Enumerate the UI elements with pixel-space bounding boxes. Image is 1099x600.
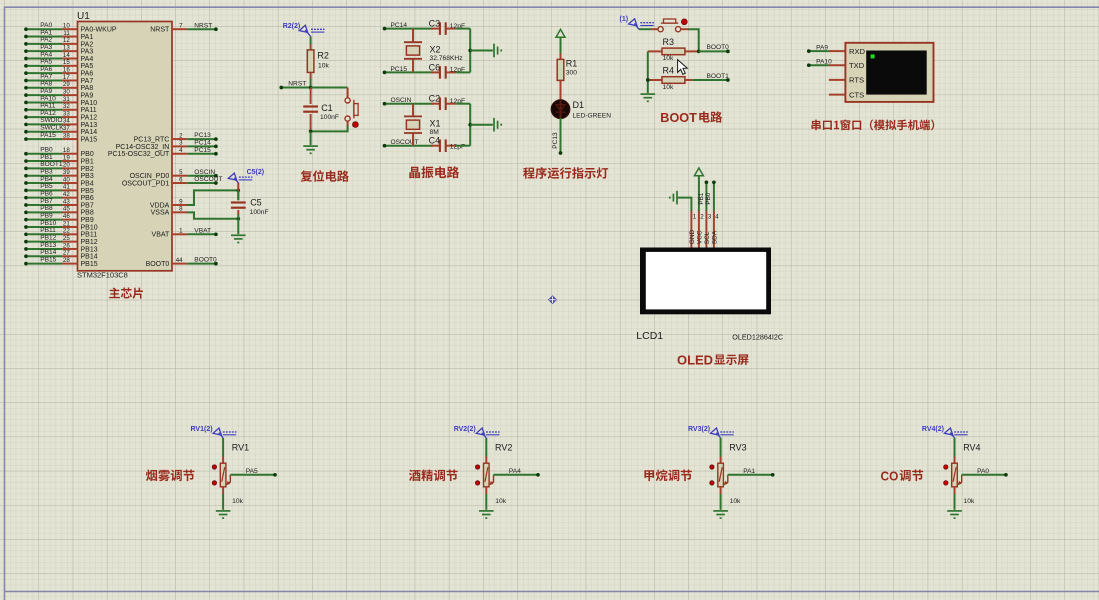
pin VBAT (1) wire	[152, 227, 218, 238]
svg-text:C3: C3	[429, 19, 441, 29]
svg-text:PB5: PB5	[40, 183, 53, 190]
svg-text:PA8: PA8	[40, 81, 52, 88]
pin PB1 (19) net PB1 wire	[24, 154, 94, 166]
wire net PB0 to SDA pin 4	[705, 180, 716, 211]
wire net PB1 to SCL pin 3	[698, 180, 708, 211]
svg-text:PA9: PA9	[81, 93, 94, 100]
svg-text:PB12: PB12	[40, 234, 56, 241]
selector dots RV4	[944, 465, 948, 485]
svg-text:31: 31	[63, 96, 70, 103]
power terminal (1)	[620, 16, 654, 29]
selector dots RV3	[710, 465, 714, 485]
ground reset circuit	[303, 146, 318, 153]
pin PC14-OSC32_IN (3) wire	[116, 140, 218, 151]
svg-text:300: 300	[566, 69, 577, 76]
svg-text:C4: C4	[429, 136, 441, 146]
svg-text:PB7: PB7	[81, 202, 94, 209]
pin OSCOUT_PD1 (6) wire	[122, 176, 223, 187]
wire C2 to right rail	[456, 103, 470, 105]
svg-text:39: 39	[63, 169, 70, 176]
wire net BOOT1	[692, 73, 729, 82]
pin PA5 (15) net PA5 wire	[24, 59, 93, 71]
svg-text:1: 1	[179, 228, 183, 235]
svg-text:9: 9	[179, 198, 183, 205]
wire RV1 to ground	[222, 494, 224, 510]
svg-text:X1: X1	[430, 119, 441, 129]
svg-text:PB6: PB6	[81, 195, 94, 202]
net PC14 wire	[383, 22, 433, 30]
svg-text:10k: 10k	[730, 498, 741, 505]
svg-text:PB1: PB1	[81, 158, 94, 165]
svg-text:PA12: PA12	[40, 110, 56, 117]
pin OSCIN_PD0 (5) wire	[130, 169, 218, 180]
svg-text:PC14: PC14	[194, 140, 211, 147]
svg-text:RV2: RV2	[495, 443, 512, 453]
svg-text:7: 7	[179, 23, 183, 30]
pin PA9 (30) net PA9 wire	[24, 88, 93, 100]
svg-text:RV1: RV1	[232, 443, 249, 453]
svg-text:22: 22	[63, 228, 70, 235]
pin PA4 (14) net PA4 wire	[24, 51, 93, 63]
svg-text:PA15: PA15	[40, 132, 56, 139]
wire power to RV1	[222, 438, 224, 457]
pin NRST (7) wire	[150, 22, 218, 33]
wire RV2 to ground	[485, 494, 487, 510]
svg-text:PB10: PB10	[81, 224, 98, 231]
svg-text:PB3: PB3	[81, 173, 94, 180]
label 甲烷调节	[644, 470, 654, 481]
svg-text:C5(2): C5(2)	[247, 169, 265, 176]
svg-text:LED-GREEN: LED-GREEN	[573, 112, 612, 119]
svg-text:BOOT: BOOT	[660, 110, 697, 125]
svg-text:OSCIN_PD0: OSCIN_PD0	[130, 173, 170, 180]
power terminal (green arrow) LED supply	[556, 29, 565, 37]
svg-text:41: 41	[63, 184, 70, 191]
node C1 bottom junction	[309, 130, 313, 134]
node rail mid X1 group	[468, 123, 472, 127]
svg-text:PB13: PB13	[81, 246, 98, 253]
label 复位电路	[301, 170, 313, 181]
svg-text:8: 8	[179, 206, 183, 213]
wire GND pin 1	[677, 198, 691, 211]
svg-text:C1: C1	[321, 103, 333, 113]
svg-text:1: 1	[693, 214, 697, 221]
resistor R2 10k	[307, 45, 329, 79]
svg-text:10: 10	[63, 23, 70, 30]
pin PA13 (34) net SWDIO wire	[24, 117, 97, 129]
node R4/rail junction	[646, 78, 650, 82]
svg-text:17: 17	[63, 74, 70, 81]
svg-text:5: 5	[179, 169, 183, 176]
pin PA6 (16) net PA6 wire	[24, 66, 93, 78]
svg-text:OSCOUT: OSCOUT	[194, 176, 222, 183]
svg-text:PC14: PC14	[391, 22, 408, 29]
ground X1 group (sideways)	[494, 118, 501, 132]
svg-text:PA15: PA15	[81, 136, 98, 143]
svg-text:PA4: PA4	[81, 56, 94, 63]
svg-text:21: 21	[63, 220, 70, 227]
selector dots RV2	[475, 465, 479, 485]
svg-text:NRST: NRST	[150, 27, 170, 34]
wire RV4 to ground	[954, 494, 956, 510]
svg-text:PA8: PA8	[81, 85, 94, 92]
svg-text:34: 34	[63, 118, 70, 125]
pin PA1 (11) net PA1 wire	[24, 29, 93, 41]
power terminal R2(2)	[283, 23, 325, 36]
svg-text:14: 14	[63, 52, 70, 59]
pin VDDA (9) wire	[150, 198, 187, 209]
ground OLED (sideways left)	[670, 191, 677, 205]
capacitor C2 12pF	[429, 94, 465, 110]
wire power to RV3	[720, 438, 722, 457]
svg-text:PA2: PA2	[40, 37, 52, 44]
svg-text:PA1: PA1	[40, 29, 52, 36]
wire VDDA to C5 top	[187, 190, 238, 205]
svg-text:42: 42	[63, 191, 70, 198]
wire net PA1	[728, 468, 775, 477]
svg-text:PA0: PA0	[977, 468, 989, 475]
svg-text:TXD: TXD	[849, 61, 865, 70]
svg-text:29: 29	[63, 81, 70, 88]
wire net PA4	[494, 468, 540, 477]
wire R2 to NRST node	[310, 79, 312, 88]
wire R1 to D1	[560, 86, 562, 101]
svg-text:SCL: SCL	[704, 231, 711, 244]
svg-text:OSCOUT_PD1: OSCOUT_PD1	[122, 180, 170, 187]
svg-text:PB2: PB2	[81, 166, 94, 173]
pin PA0-WKUP (10) net PA0 wire	[24, 22, 117, 34]
potentiometer RV3 10k	[718, 443, 747, 506]
svg-text:RV2(2): RV2(2)	[454, 426, 476, 433]
resistor R4 10k	[648, 66, 693, 91]
svg-text:PC13: PC13	[552, 132, 559, 149]
svg-text:RXD: RXD	[849, 47, 866, 56]
svg-text:PB14: PB14	[81, 254, 98, 261]
svg-text:37: 37	[63, 125, 70, 132]
svg-text:RV4: RV4	[963, 443, 980, 453]
svg-text:18: 18	[63, 147, 70, 154]
pin BOOT0 (44) wire	[146, 257, 218, 268]
svg-text:CO: CO	[881, 469, 899, 484]
pin PB6 (42) net PB6 wire	[24, 190, 94, 202]
net OSCIN wire	[383, 97, 433, 105]
potentiometer RV4 10k	[952, 443, 981, 506]
potentiometer RV2 10k	[484, 443, 513, 506]
pin PA15 (38) net PA15 wire	[24, 132, 97, 144]
wire NRST stub left	[279, 86, 310, 90]
pin PA11 (32) net PA11 wire	[24, 103, 97, 115]
svg-text:40: 40	[63, 176, 70, 183]
svg-text:PB13: PB13	[40, 242, 56, 249]
mouse cursor	[678, 60, 688, 75]
svg-text:R2(2): R2(2)	[283, 23, 301, 30]
push button (reset)	[345, 98, 358, 128]
origin marker	[548, 295, 557, 304]
svg-text:PA5: PA5	[81, 63, 94, 70]
svg-text:32.768KHz: 32.768KHz	[430, 55, 464, 62]
svg-text:BOOT0: BOOT0	[146, 261, 170, 268]
selector dots RV1	[212, 465, 216, 485]
svg-text:PB0: PB0	[81, 151, 94, 158]
wire net PA5	[230, 468, 277, 477]
svg-text:D1: D1	[573, 100, 585, 110]
net PC15 wire	[383, 66, 433, 74]
pin PA12 (33) net PA12 wire	[24, 110, 97, 122]
svg-text:C6: C6	[429, 62, 441, 72]
wire D1 to PC13 net	[552, 118, 562, 155]
svg-text:PB8: PB8	[40, 205, 53, 212]
svg-text:PB1: PB1	[698, 192, 705, 204]
svg-text:PA10: PA10	[40, 95, 56, 102]
ground RV3	[713, 511, 728, 518]
svg-text:6: 6	[179, 176, 183, 183]
svg-text:33: 33	[63, 110, 70, 117]
wire C6 to right rail	[456, 71, 470, 73]
svg-text:STM32F103C8: STM32F103C8	[77, 271, 128, 280]
svg-text:PA2: PA2	[81, 41, 94, 48]
pin PA8 (29) net PA8 wire	[24, 81, 93, 93]
ground RV1	[216, 511, 231, 518]
svg-text:PB10: PB10	[40, 220, 56, 227]
svg-text:45: 45	[63, 206, 70, 213]
node VSSA/C5 junction	[236, 217, 240, 221]
label 串口1窗口（模拟手机端）	[811, 120, 820, 131]
wire rail to ground X2 group	[470, 50, 493, 52]
node R3/button junction	[697, 50, 701, 54]
svg-text:PA6: PA6	[81, 71, 94, 78]
OLED module LCD1 OLED12864I2C	[636, 248, 783, 342]
pin PA7 (17) net PA7 wire	[24, 73, 93, 85]
power terminal C5(2)	[228, 169, 264, 183]
wire right rail X1 group	[469, 104, 471, 146]
svg-text:PB14: PB14	[40, 249, 56, 256]
power terminal RV1(2)	[191, 426, 237, 438]
svg-text:PA4: PA4	[40, 51, 52, 58]
svg-text:U1: U1	[77, 11, 90, 22]
svg-text:13: 13	[63, 44, 70, 51]
svg-text:PC15: PC15	[194, 147, 211, 154]
power terminal RV4(2)	[922, 426, 968, 438]
svg-text:46: 46	[63, 213, 70, 220]
svg-text:10k: 10k	[663, 84, 674, 91]
wire C3 to right rail	[456, 28, 470, 30]
svg-text:PA5: PA5	[246, 468, 258, 475]
svg-text:10k: 10k	[964, 498, 975, 505]
svg-text:PB12: PB12	[81, 239, 98, 246]
svg-text:PA10: PA10	[81, 100, 98, 107]
svg-text:PB9: PB9	[81, 217, 94, 224]
push button (BOOT)	[658, 19, 687, 32]
svg-text:VBAT: VBAT	[152, 232, 170, 239]
net OSCOUT wire	[383, 139, 433, 147]
svg-text:3: 3	[708, 214, 712, 221]
svg-text:26: 26	[63, 242, 70, 249]
svg-text:32: 32	[63, 103, 70, 110]
pin PB8 (45) net PB8 wire	[24, 205, 94, 217]
capacitor C4 12pF	[429, 136, 465, 152]
capacitor C1 100nF	[303, 88, 339, 132]
svg-text:12pF: 12pF	[450, 144, 465, 151]
wire rail to ground X1 group	[470, 124, 493, 126]
pin PB13 (26) net PB13 wire	[24, 242, 98, 254]
wire power to RV2	[485, 438, 487, 457]
ground RV4	[947, 511, 962, 518]
svg-text:100nF: 100nF	[320, 114, 339, 121]
wire button to R3 node	[681, 28, 689, 30]
svg-text:PA5: PA5	[40, 59, 52, 66]
wire power to RV4	[954, 438, 956, 457]
svg-text:10k: 10k	[232, 498, 243, 505]
svg-text:R2: R2	[317, 51, 329, 61]
svg-text:20: 20	[63, 162, 70, 169]
pin PA14 (37) net SWCLK wire	[24, 125, 97, 137]
svg-text:R1: R1	[566, 58, 578, 68]
svg-text:PB11: PB11	[81, 232, 98, 239]
node NRST junction	[309, 86, 313, 90]
svg-text:PC14-OSC32_IN: PC14-OSC32_IN	[116, 144, 170, 151]
svg-text:11: 11	[63, 30, 70, 37]
svg-text:RV3: RV3	[729, 443, 746, 453]
svg-text:CTS: CTS	[849, 90, 864, 99]
ground BOOT circuit	[641, 94, 656, 101]
resistor R1 300	[557, 54, 577, 87]
pin PB15 (28) net PB15 wire	[24, 256, 98, 268]
pin PB11 (22) net PB11 wire	[24, 227, 97, 239]
svg-text:PA3: PA3	[40, 44, 52, 51]
svg-text:28: 28	[63, 257, 70, 264]
svg-text:RTS: RTS	[849, 76, 864, 85]
svg-text:PB7: PB7	[40, 198, 53, 205]
microcontroller U1 STM32F103C8 body	[77, 11, 172, 280]
svg-text:RV3(2): RV3(2)	[688, 426, 710, 433]
svg-text:PA4: PA4	[509, 468, 521, 475]
svg-text:PB9: PB9	[40, 212, 53, 219]
wire net BOOT0	[699, 44, 730, 53]
wire left rail R3-R4-ground	[647, 51, 649, 93]
svg-text:PA6: PA6	[40, 66, 52, 73]
svg-text:PB8: PB8	[81, 210, 94, 217]
svg-text:BOOT0: BOOT0	[707, 44, 730, 51]
wire C4 to right rail	[456, 145, 470, 147]
svg-text:19: 19	[63, 154, 70, 161]
power terminal (green arrow) OLED VCC	[694, 168, 703, 176]
svg-text:PB6: PB6	[40, 190, 53, 197]
svg-text:PA7: PA7	[81, 78, 94, 85]
svg-text:10k: 10k	[663, 55, 674, 62]
svg-text:VCC: VCC	[696, 230, 703, 244]
svg-text:OSCOUT: OSCOUT	[391, 139, 419, 146]
pin PB3 (39) net PB3 wire	[24, 169, 94, 181]
pin PB10 (21) net PB10 wire	[24, 220, 98, 232]
svg-text:PB15: PB15	[81, 261, 98, 268]
label 烟雾调节	[146, 470, 157, 482]
svg-text:100nF: 100nF	[250, 209, 269, 216]
svg-text:BOOT0: BOOT0	[194, 257, 217, 264]
svg-text:PB0: PB0	[40, 147, 53, 154]
svg-text:PA1: PA1	[743, 468, 755, 475]
wire net PA10	[807, 58, 832, 67]
virtual terminal (serial window)	[829, 43, 934, 102]
svg-text:PB15: PB15	[40, 256, 56, 263]
svg-text:4: 4	[179, 147, 183, 154]
OLED pins 1-4 stubs	[689, 211, 720, 249]
svg-text:PA1: PA1	[81, 34, 94, 41]
wire VSSA to C5 bottom	[187, 212, 238, 218]
svg-text:10k: 10k	[495, 498, 506, 505]
svg-text:PA13: PA13	[81, 122, 98, 129]
svg-text:PB11: PB11	[40, 227, 56, 234]
label 程序运行指示灯	[523, 167, 535, 178]
wire C5 to ground	[237, 219, 239, 235]
potentiometer RV1 10k	[220, 443, 249, 506]
node rail mid X2 group	[468, 49, 472, 53]
svg-text:RV4(2): RV4(2)	[922, 426, 944, 433]
wire net PA0	[962, 468, 1008, 477]
pin PB12 (25) net PB12 wire	[24, 234, 98, 246]
pin PA2 (12) net PA2 wire	[24, 37, 93, 49]
svg-text:VBAT: VBAT	[194, 227, 211, 234]
svg-text:PB4: PB4	[81, 180, 94, 187]
svg-text:PA7: PA7	[40, 73, 52, 80]
svg-text:X2: X2	[430, 44, 441, 54]
svg-text:OSCIN: OSCIN	[194, 169, 215, 176]
svg-text:SWCLK: SWCLK	[40, 125, 64, 132]
svg-text:R3: R3	[663, 37, 675, 47]
wire button to bottom node	[347, 121, 349, 126]
ground RV2	[479, 511, 494, 518]
svg-text:PA9: PA9	[40, 88, 52, 95]
svg-text:BOOT1: BOOT1	[707, 73, 730, 80]
svg-text:PB1: PB1	[40, 154, 53, 161]
ground below C5	[231, 235, 246, 242]
wire node to ground	[310, 131, 312, 145]
svg-text:PC13: PC13	[194, 132, 211, 139]
svg-text:LCD1: LCD1	[636, 330, 663, 342]
svg-text:PA0-WKUP: PA0-WKUP	[81, 27, 117, 34]
svg-text:PA11: PA11	[40, 103, 55, 110]
pin PB9 (46) net PB9 wire	[24, 212, 94, 224]
svg-text:3: 3	[179, 140, 183, 147]
pin PA3 (13) net PA3 wire	[24, 44, 93, 56]
pin PB5 (41) net PB5 wire	[24, 183, 94, 195]
wire power to R1	[560, 37, 562, 54]
wire net PA9	[807, 44, 829, 53]
svg-text:12: 12	[63, 37, 70, 44]
capacitor C6 12pF	[429, 62, 465, 78]
svg-text:16: 16	[63, 66, 70, 73]
pin PC15-OSC32_OUT (4) wire	[108, 147, 218, 158]
capacitor C3 12pF	[429, 19, 465, 35]
svg-text:PA3: PA3	[81, 49, 94, 56]
pin VSSA (8) wire	[151, 206, 188, 217]
ground X2 group (sideways)	[494, 44, 501, 58]
label 晶振电路	[409, 167, 420, 179]
pin PC13_RTC (2) wire	[134, 132, 218, 143]
svg-text:C5: C5	[250, 198, 262, 208]
svg-text:SDA: SDA	[711, 230, 718, 244]
svg-text:30: 30	[63, 88, 70, 95]
svg-text:PB5: PB5	[81, 188, 94, 195]
svg-text:43: 43	[63, 198, 70, 205]
svg-text:PA12: PA12	[81, 115, 98, 122]
svg-text:4: 4	[715, 214, 719, 221]
LED D1 LED-GREEN	[551, 100, 611, 120]
svg-text:10k: 10k	[318, 62, 329, 69]
crystal X1 8M	[404, 104, 441, 146]
wire right rail X2 group	[469, 29, 471, 73]
svg-text:PB3: PB3	[40, 169, 53, 176]
svg-text:PA9: PA9	[816, 44, 828, 51]
